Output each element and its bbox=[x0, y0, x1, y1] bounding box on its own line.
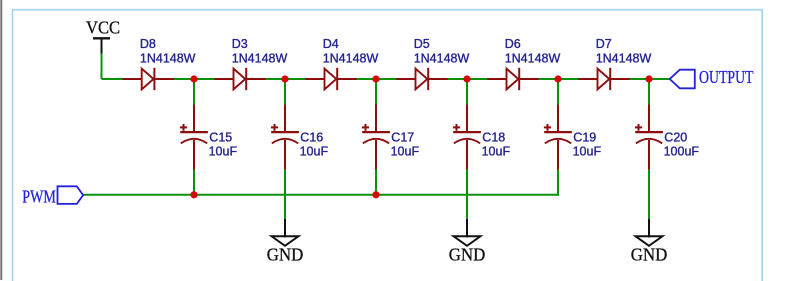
svg-text:D4: D4 bbox=[323, 37, 339, 51]
diode D7 bbox=[578, 37, 651, 90]
svg-text:C17: C17 bbox=[391, 130, 414, 144]
capacitor C15 bbox=[180, 105, 238, 170]
port OUTPUT bbox=[670, 67, 754, 88]
capacitor C17 bbox=[362, 105, 420, 170]
ground at C16 bbox=[267, 219, 304, 265]
svg-text:GND: GND bbox=[449, 244, 486, 264]
diode D3 bbox=[214, 37, 287, 90]
wire: C16 top stub bbox=[284, 79, 286, 105]
svg-text:1N4148W: 1N4148W bbox=[140, 51, 196, 65]
svg-text:10uF: 10uF bbox=[300, 144, 329, 158]
diode D6 bbox=[487, 37, 560, 90]
diode D5 bbox=[396, 37, 469, 90]
svg-text:D6: D6 bbox=[505, 37, 521, 51]
wire: C19 top stub bbox=[557, 79, 559, 105]
svg-text:VCC: VCC bbox=[86, 18, 120, 38]
svg-text:10uF: 10uF bbox=[391, 144, 420, 158]
svg-text:D7: D7 bbox=[596, 37, 612, 51]
wire: C20 top stub bbox=[648, 79, 650, 105]
wire: C16 bottom to GND bbox=[284, 170, 286, 219]
capacitor C18 bbox=[453, 105, 511, 170]
junction node at D3/D4 bbox=[281, 75, 288, 82]
wire: C15 bottom to PWM bus bbox=[193, 170, 195, 195]
wire: top rail bbox=[102, 78, 670, 80]
wire: C15 top stub bbox=[193, 79, 195, 105]
svg-text:10uF: 10uF bbox=[209, 144, 238, 158]
svg-text:D3: D3 bbox=[232, 37, 248, 51]
junction node C17/bus bbox=[372, 191, 379, 198]
port PWM bbox=[22, 186, 83, 206]
wire: PWM bus bbox=[83, 194, 559, 196]
svg-text:10uF: 10uF bbox=[482, 144, 511, 158]
ground at C20 bbox=[631, 219, 668, 265]
wire: C18 bottom to GND bbox=[466, 170, 468, 219]
svg-text:1N4148W: 1N4148W bbox=[505, 51, 561, 65]
capacitor C19 bbox=[544, 105, 602, 170]
capacitor C16 bbox=[271, 105, 329, 170]
ground at C18 bbox=[449, 219, 486, 265]
wire: VCC stem to top rail bbox=[101, 54, 103, 79]
wire: C20 bottom to GND bbox=[648, 170, 650, 219]
junction node at D8/D3 bbox=[190, 75, 197, 82]
svg-text:1N4148W: 1N4148W bbox=[414, 51, 470, 65]
svg-text:C18: C18 bbox=[482, 130, 505, 144]
junction node at D4/D5 bbox=[372, 75, 379, 82]
wire: C19 bottom to PWM bus corner bbox=[557, 170, 559, 196]
svg-text:D8: D8 bbox=[140, 37, 156, 51]
svg-text:GND: GND bbox=[631, 244, 668, 264]
wire: C18 top stub bbox=[466, 79, 468, 105]
svg-text:1N4148W: 1N4148W bbox=[323, 51, 379, 65]
svg-text:GND: GND bbox=[267, 244, 304, 264]
capacitor C20 bbox=[635, 105, 700, 170]
power flag VCC bbox=[86, 18, 120, 54]
svg-text:D5: D5 bbox=[414, 37, 430, 51]
svg-text:10uF: 10uF bbox=[573, 144, 602, 158]
svg-text:PWM: PWM bbox=[22, 186, 56, 206]
svg-text:OUTPUT: OUTPUT bbox=[699, 67, 754, 87]
svg-text:1N4148W: 1N4148W bbox=[596, 51, 652, 65]
junction node at D5/D6 bbox=[463, 75, 470, 82]
svg-text:1N4148W: 1N4148W bbox=[232, 51, 288, 65]
svg-text:C20: C20 bbox=[664, 130, 687, 144]
svg-text:100uF: 100uF bbox=[664, 144, 700, 158]
svg-text:C15: C15 bbox=[209, 130, 232, 144]
svg-text:C16: C16 bbox=[300, 130, 323, 144]
junction node C15/bus bbox=[190, 191, 197, 198]
wire: C17 bottom to PWM bus bbox=[375, 170, 377, 195]
diode D8 bbox=[123, 37, 196, 90]
wire: C17 top stub bbox=[375, 79, 377, 105]
svg-text:C19: C19 bbox=[573, 130, 596, 144]
junction node at D6/D7 bbox=[554, 75, 561, 82]
diode D4 bbox=[305, 37, 378, 90]
junction node at D7/OUTPUT bbox=[645, 75, 652, 82]
